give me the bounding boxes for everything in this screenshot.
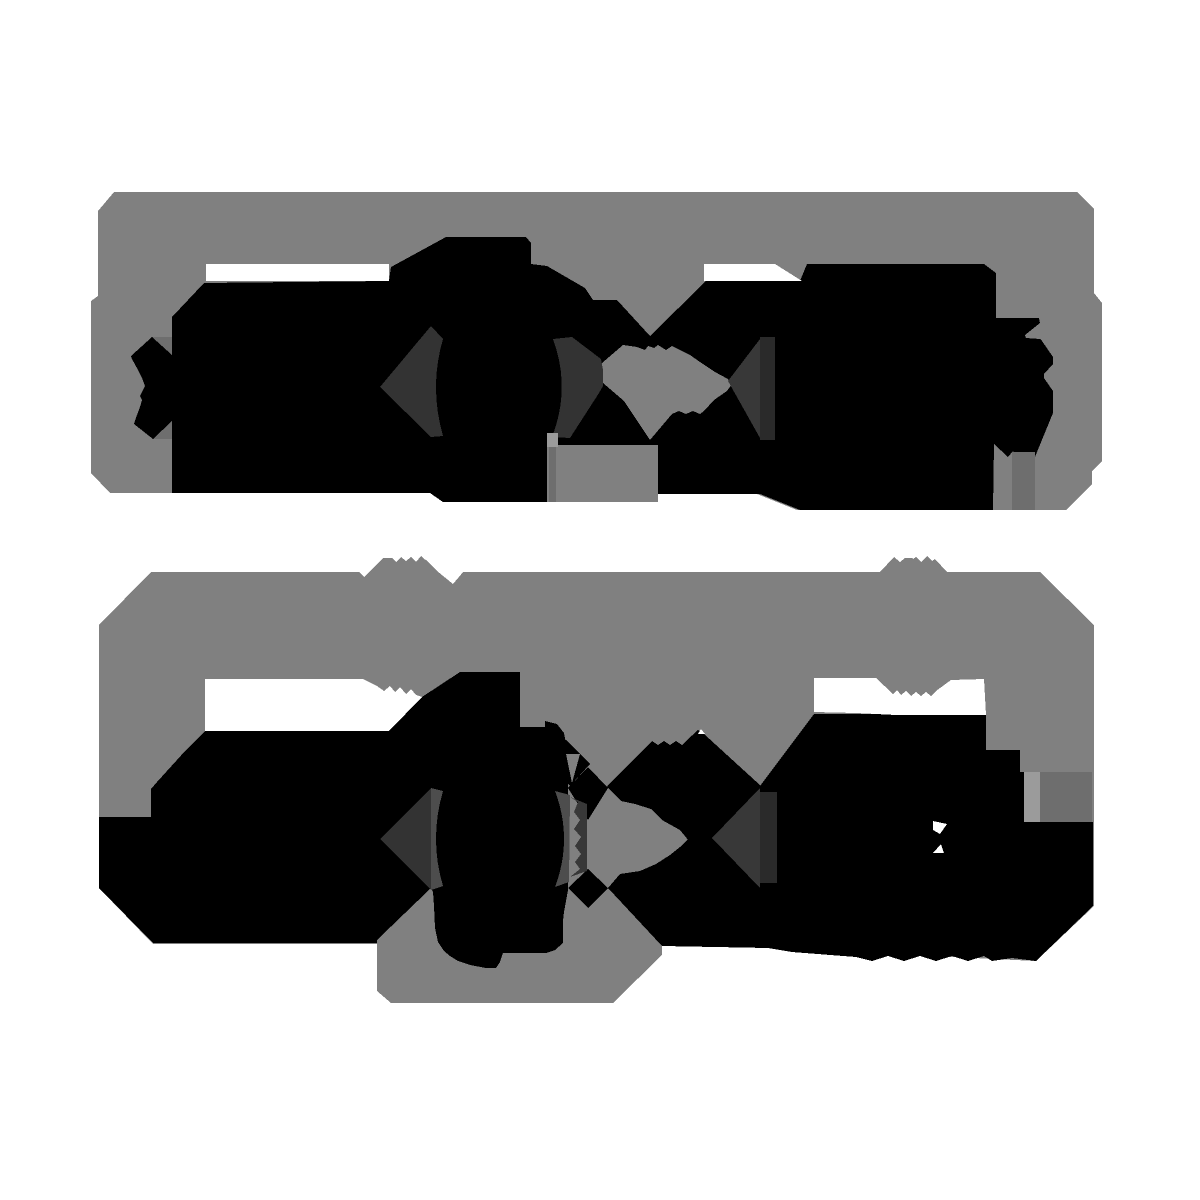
terminal X upper wedge bbox=[152, 337, 172, 355]
node band1 connector tab bbox=[547, 433, 558, 447]
node inter-diamond dark wedge bbox=[570, 797, 587, 877]
node band1 label blob bbox=[602, 345, 732, 440]
node band2 squiggle S2 bbox=[880, 556, 947, 572]
transistor Q3 right box band2 bbox=[608, 714, 1093, 961]
resistor R3 left lens band2 bbox=[380, 788, 431, 890]
diode D1 bar bbox=[760, 337, 775, 440]
node band2 squiggle S1 bbox=[369, 556, 438, 572]
node white speck lower bbox=[933, 844, 944, 853]
wire stem to diamond band2 bbox=[552, 736, 590, 786]
wire band1 white strip B bbox=[704, 264, 802, 281]
resistor R4 right crescent band2 bbox=[555, 791, 570, 887]
capacitor C1 dark stripe bbox=[1012, 452, 1035, 510]
node white speck upper bbox=[933, 821, 947, 834]
diode D1 arrow bbox=[728, 339, 760, 438]
diode D2 arrow band2 bbox=[712, 788, 760, 888]
wire squiggle S1 left notch bbox=[358, 571, 370, 577]
node white speck crossing bbox=[698, 729, 705, 734]
node band2 small gray wedge bbox=[566, 754, 580, 783]
wire band2 upper wedge bbox=[607, 730, 761, 841]
wire band1 connector dark column bbox=[549, 447, 556, 502]
node band2 rail bbox=[99, 572, 1094, 1003]
diode D2 bar bbox=[760, 792, 777, 883]
terminal X lower wedge bbox=[153, 421, 172, 439]
transistor Q1 left box band2 bbox=[99, 672, 568, 968]
node diamond lower bbox=[568, 869, 608, 908]
capacitor C2 block bbox=[1040, 772, 1092, 822]
wire squiggle S1 right notch bbox=[437, 571, 464, 584]
wire band1 content bus bbox=[131, 237, 1053, 510]
wire band2 white strip B2 bbox=[814, 678, 986, 715]
capacitor C2 tab bbox=[1024, 772, 1040, 822]
wire band2 white strip A2 bbox=[205, 679, 422, 731]
resistor R1 left lens bbox=[380, 326, 443, 437]
resistor R2 right lens bbox=[552, 337, 603, 438]
node diamond upper bbox=[568, 767, 608, 820]
node band1 rail bbox=[91, 192, 1102, 510]
resistor R3 crescent band2 bbox=[431, 788, 443, 890]
wire band1 white strip A bbox=[206, 264, 389, 281]
